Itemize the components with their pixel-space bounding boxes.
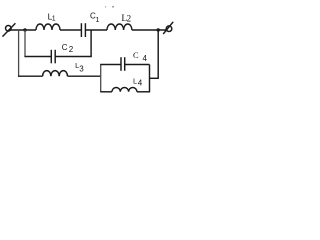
- wire C2 row right: [55, 56, 91, 58]
- wire tank bottom rail left: [100, 91, 112, 93]
- capacitor C2: [51, 50, 55, 64]
- wire vertical left branch: [18, 30, 20, 77]
- svg-text:2: 2: [69, 45, 74, 54]
- svg-text:L: L: [133, 76, 137, 85]
- wire L3 to tank: [68, 75, 101, 77]
- wire L1 to C1: [60, 29, 81, 31]
- label L4: [133, 76, 143, 87]
- label L3: [75, 61, 84, 73]
- terminal input port: [3, 23, 16, 36]
- svg-text:4: 4: [143, 54, 148, 63]
- svg-text:3: 3: [79, 64, 84, 73]
- wire vertical C2 branch left: [24, 30, 26, 57]
- terminal output port: [163, 22, 173, 34]
- wire tank top rail right: [125, 64, 150, 66]
- label C2: [62, 43, 74, 54]
- wire top left: [11, 29, 36, 31]
- wire output vertical: [157, 30, 159, 79]
- wire tank top rail left: [100, 64, 121, 66]
- svg-text:1: 1: [52, 16, 56, 23]
- wire tank left side: [100, 65, 102, 92]
- svg-text:2: 2: [127, 14, 132, 24]
- svg-text:C: C: [133, 51, 139, 60]
- capacitor C1: [81, 23, 85, 37]
- inductor L2: [107, 24, 132, 30]
- inductor L4: [112, 88, 137, 92]
- label L2: [121, 14, 131, 25]
- wire L2 to output: [132, 29, 166, 31]
- label C1: [90, 12, 100, 25]
- wire L3 row left: [18, 75, 43, 77]
- wire vertical C2 branch right: [90, 30, 92, 57]
- wire tank to output connector: [150, 77, 159, 79]
- svg-text:1: 1: [96, 17, 100, 24]
- wire C1 to L2: [85, 29, 107, 31]
- inductor L1: [36, 24, 60, 30]
- label C4: [133, 51, 148, 63]
- svg-text:4: 4: [138, 78, 143, 87]
- wire C2 row left: [25, 56, 52, 58]
- node A junction dot: [23, 28, 26, 31]
- wire tank right side: [149, 65, 151, 92]
- node B junction dot: [157, 28, 160, 31]
- wire tank bottom rail right: [137, 91, 150, 93]
- capacitor C4: [121, 57, 125, 71]
- inductor L3: [43, 71, 68, 77]
- svg-text:C: C: [62, 43, 68, 52]
- label L1: [48, 11, 56, 22]
